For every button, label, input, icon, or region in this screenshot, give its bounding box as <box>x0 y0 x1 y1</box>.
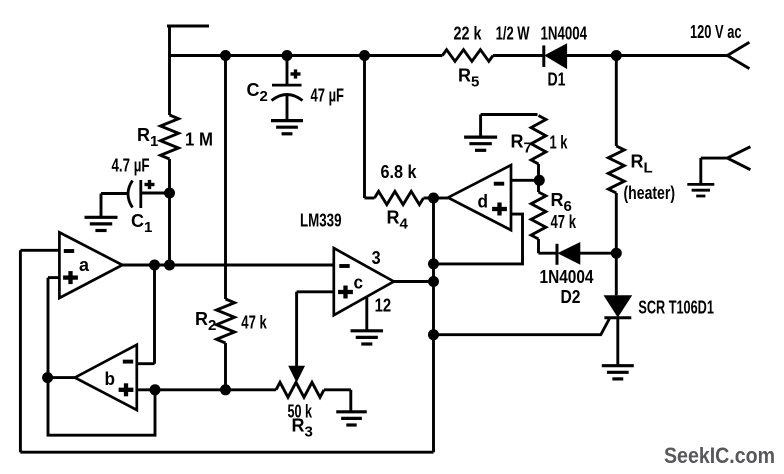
svg-text:120 V ac: 120 V ac <box>690 22 742 42</box>
svg-text:6.8 k: 6.8 k <box>381 162 418 182</box>
svg-text:SCR T106D1: SCR T106D1 <box>638 298 714 318</box>
svg-text:D1: D1 <box>548 70 566 90</box>
svg-text:22 k: 22 k <box>454 24 483 44</box>
svg-text:47 k: 47 k <box>241 313 267 333</box>
svg-text:D2: D2 <box>561 287 581 307</box>
svg-text:1 k: 1 k <box>550 133 569 153</box>
svg-text:1 M: 1 M <box>185 130 213 150</box>
svg-text:47 µF: 47 µF <box>311 86 345 106</box>
svg-text:c: c <box>354 273 364 293</box>
svg-text:1N4004: 1N4004 <box>540 267 594 287</box>
svg-text:47 k: 47 k <box>551 212 577 232</box>
svg-text:12: 12 <box>375 296 392 316</box>
svg-text:1/2 W: 1/2 W <box>496 24 530 44</box>
svg-text:a: a <box>79 255 90 275</box>
svg-text:3: 3 <box>372 248 381 268</box>
svg-text:4.7 µF: 4.7 µF <box>112 156 150 176</box>
svg-text:LM339: LM339 <box>300 211 342 231</box>
svg-text:b: b <box>105 369 116 389</box>
svg-text:SeekIC.com: SeekIC.com <box>664 443 775 468</box>
svg-text:d: d <box>478 192 489 212</box>
svg-text:(heater): (heater) <box>624 183 676 203</box>
svg-text:1N4004: 1N4004 <box>541 24 588 44</box>
